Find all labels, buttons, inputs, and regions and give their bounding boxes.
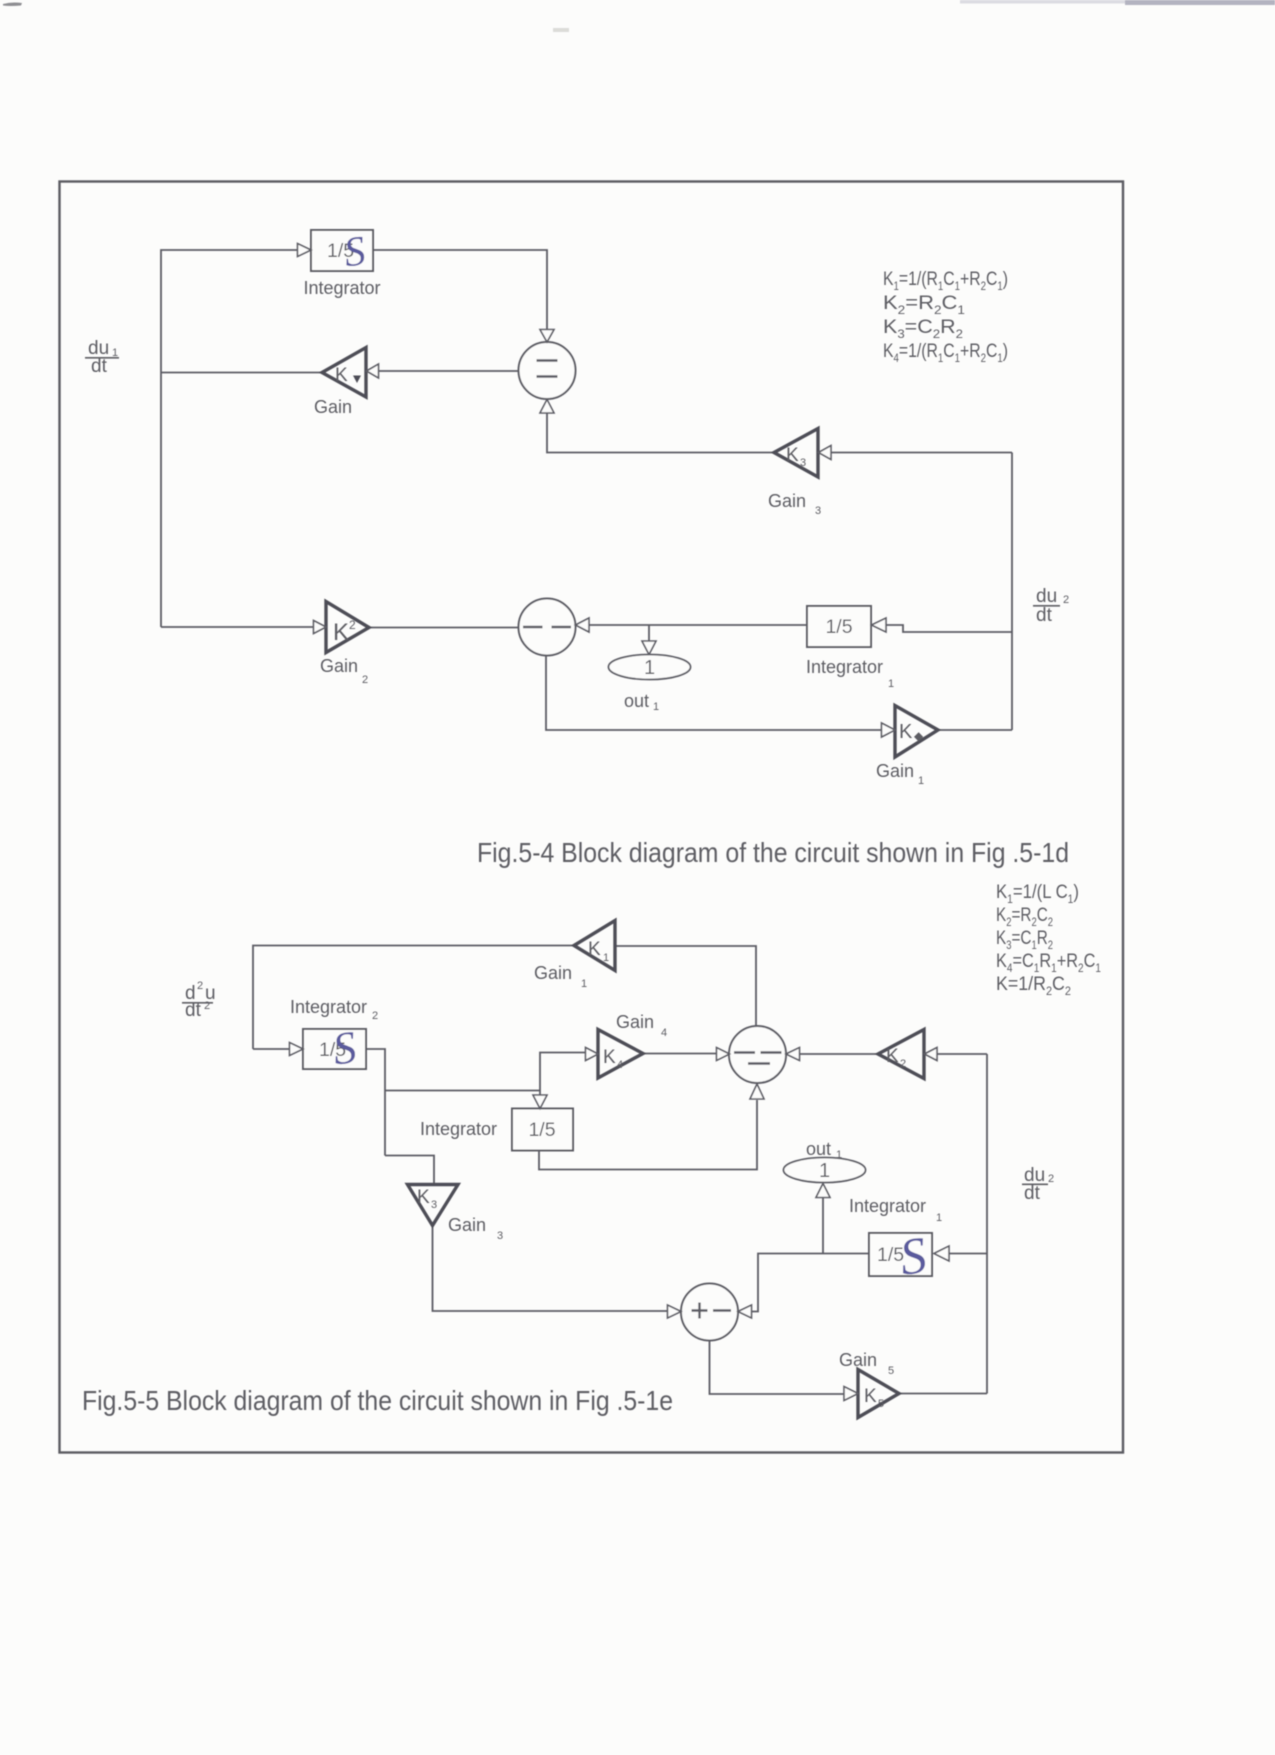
svg-text:K: K bbox=[864, 1386, 877, 1407]
svg-text:dt: dt bbox=[91, 356, 108, 377]
svg-text:K3=C2R2: K3=C2R2 bbox=[883, 316, 963, 341]
svg-text:dt: dt bbox=[185, 1000, 202, 1021]
svg-text:Gain: Gain bbox=[616, 1012, 654, 1032]
svg-text:1: 1 bbox=[581, 978, 587, 990]
svg-text:1/5: 1/5 bbox=[825, 616, 852, 638]
svg-text:2: 2 bbox=[900, 1058, 906, 1070]
svg-text:1: 1 bbox=[918, 775, 924, 787]
svg-text:Integrator: Integrator bbox=[420, 1119, 497, 1139]
svg-text:K: K bbox=[335, 365, 348, 386]
svg-text:K: K bbox=[886, 1046, 899, 1067]
svg-text:out: out bbox=[624, 691, 649, 711]
svg-text:Integrator: Integrator bbox=[849, 1196, 926, 1216]
svg-text:K4=C1R1+R2C1: K4=C1R1+R2C1 bbox=[996, 950, 1101, 975]
svg-text:2: 2 bbox=[197, 980, 203, 992]
svg-text:2: 2 bbox=[372, 1010, 378, 1022]
svg-text:2: 2 bbox=[349, 618, 356, 632]
svg-text:4: 4 bbox=[617, 1059, 623, 1071]
svg-text:Integrator: Integrator bbox=[290, 997, 367, 1017]
svg-text:Gain: Gain bbox=[314, 397, 352, 417]
svg-text:K2=R2C2: K2=R2C2 bbox=[996, 904, 1053, 929]
svg-text:Gain: Gain bbox=[768, 491, 806, 511]
svg-text:2: 2 bbox=[1063, 594, 1069, 606]
svg-text:dt: dt bbox=[1024, 1183, 1041, 1204]
svg-text:2: 2 bbox=[362, 674, 368, 686]
svg-text:1: 1 bbox=[936, 1212, 942, 1224]
svg-text:out: out bbox=[806, 1139, 831, 1159]
svg-text:Fig.5-5 Block diagram of the c: Fig.5-5 Block diagram of the circuit sho… bbox=[82, 1385, 673, 1416]
svg-text:K2=R2C1: K2=R2C1 bbox=[883, 292, 965, 317]
svg-text:1: 1 bbox=[644, 657, 655, 679]
svg-text:◆: ◆ bbox=[914, 729, 924, 743]
svg-text:2: 2 bbox=[204, 1000, 210, 1012]
svg-text:3: 3 bbox=[800, 457, 806, 469]
svg-text:1: 1 bbox=[653, 701, 659, 713]
svg-text:4: 4 bbox=[661, 1027, 667, 1039]
svg-text:3: 3 bbox=[431, 1199, 437, 1211]
svg-text:Gain: Gain bbox=[534, 963, 572, 983]
svg-text:K: K bbox=[417, 1187, 430, 1208]
svg-text:Gain: Gain bbox=[876, 761, 914, 781]
svg-text:1: 1 bbox=[819, 1160, 830, 1182]
svg-text:3: 3 bbox=[497, 1230, 503, 1242]
svg-text:K: K bbox=[603, 1047, 616, 1068]
svg-text:dt: dt bbox=[1036, 605, 1053, 626]
svg-text:K1=1/(L C1): K1=1/(L C1) bbox=[996, 881, 1079, 906]
svg-text:1: 1 bbox=[836, 1149, 842, 1161]
svg-text:K=1/R2C2: K=1/R2C2 bbox=[996, 973, 1071, 998]
svg-text:K1=1/(R1C1+R2C1): K1=1/(R1C1+R2C1) bbox=[883, 268, 1008, 293]
svg-text:Gain: Gain bbox=[839, 1350, 877, 1370]
svg-text:Fig.5-4 Block diagram of the c: Fig.5-4 Block diagram of the circuit sho… bbox=[477, 837, 1069, 868]
svg-text:Gain: Gain bbox=[320, 656, 358, 676]
svg-text:5: 5 bbox=[878, 1398, 884, 1410]
svg-text:2: 2 bbox=[1048, 1173, 1054, 1185]
svg-text:K: K bbox=[588, 939, 601, 960]
svg-text:K: K bbox=[899, 721, 913, 743]
svg-text:du: du bbox=[1036, 586, 1057, 607]
svg-text:Gain: Gain bbox=[448, 1215, 486, 1235]
svg-text:1: 1 bbox=[888, 678, 894, 690]
svg-text:Integrator: Integrator bbox=[303, 278, 380, 298]
svg-text:1/5: 1/5 bbox=[528, 1119, 555, 1141]
svg-text:1: 1 bbox=[603, 952, 609, 964]
svg-text:3: 3 bbox=[815, 505, 821, 517]
svg-text:5: 5 bbox=[888, 1365, 894, 1377]
svg-text:Integrator: Integrator bbox=[806, 657, 883, 677]
svg-text:K: K bbox=[786, 445, 799, 466]
svg-text:K: K bbox=[333, 619, 349, 646]
svg-text:K3=C1R2: K3=C1R2 bbox=[996, 927, 1053, 952]
svg-text:K4=1/(R1C1+R2C1): K4=1/(R1C1+R2C1) bbox=[883, 340, 1008, 365]
